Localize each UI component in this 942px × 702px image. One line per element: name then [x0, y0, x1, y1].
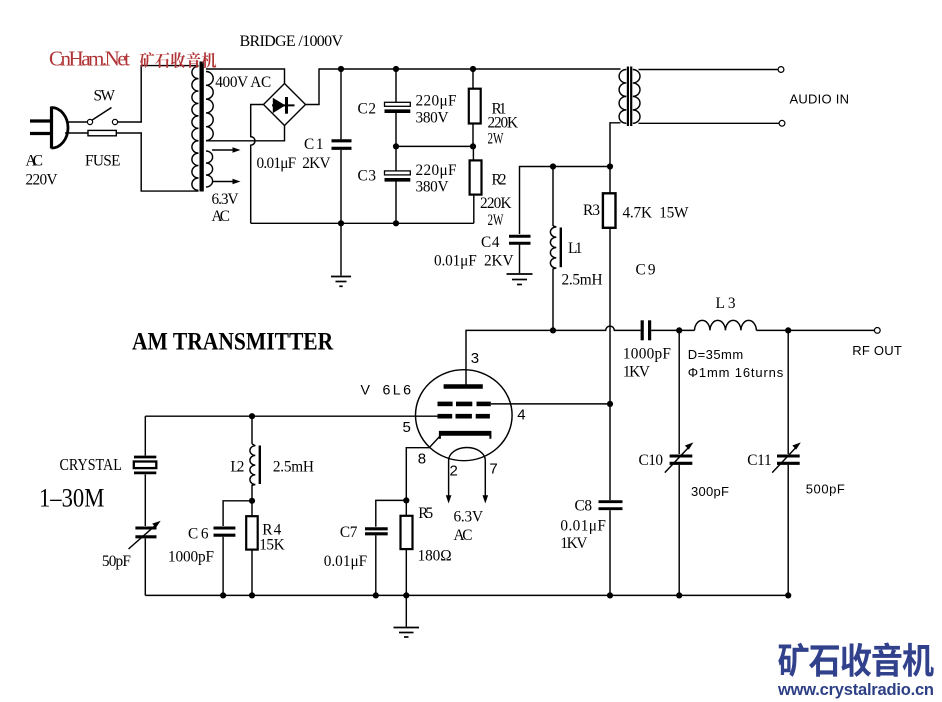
node junction at 553,330.4 — [550, 327, 556, 333]
wire crystal to 50pF — [144, 474, 146, 526]
variable capacitor 50pF — [129, 521, 161, 549]
ground — [394, 628, 420, 638]
wire C10 column top — [678, 330, 680, 454]
capacitor C3 (electrolytic) — [385, 171, 411, 180]
wire plug to fuse — [65, 132, 88, 134]
wire pin4 node down to C8 — [609, 404, 611, 501]
svg-text:4: 4 — [517, 407, 525, 424]
wire primary bottom rail — [141, 132, 198, 191]
audio transformer T2 secondary winding — [633, 70, 640, 124]
node junction at 610,403.9 — [607, 401, 613, 407]
svg-text:CnHam.Net: CnHam.Net — [49, 47, 130, 71]
wire crystal column — [144, 416, 146, 455]
wire 50pF to ground rail — [144, 539, 146, 596]
svg-text:AC: AC — [212, 208, 231, 225]
node wire C4/L1/R3 — [520, 167, 611, 235]
wire node to C6 — [223, 501, 252, 526]
svg-text:1KV: 1KV — [560, 535, 587, 552]
svg-text:C10: C10 — [639, 452, 664, 469]
switch SW — [87, 108, 117, 125]
audio in terminal top — [778, 67, 784, 73]
bridge rectifier diamond — [264, 84, 306, 126]
wire C8 bottom — [609, 510, 611, 595]
svg-text:2W: 2W — [488, 211, 504, 228]
node junction at 788.2,595.4 — [785, 592, 791, 598]
svg-text:BRIDGE /1000V: BRIDGE /1000V — [240, 33, 344, 50]
wire switch to transformer primary top — [118, 121, 142, 123]
logo kuangshi shouyinji blue — [778, 643, 808, 677]
wire pin 5 (grid to crystal rail) — [145, 415, 437, 417]
node junction at 396,223.3 — [393, 220, 399, 226]
svg-text:7: 7 — [489, 461, 497, 478]
wire to ground symbol — [340, 223, 342, 275]
wire audio transformer to R3 column — [610, 123, 621, 194]
resistor R5 — [401, 516, 413, 549]
wire 400V bottom to bridge — [206, 125, 285, 141]
wire R3 bottom down through hop to pin4 node — [609, 228, 611, 404]
node junction at 473,69 — [470, 66, 476, 72]
svg-text:C8: C8 — [575, 497, 593, 514]
node junction at 252,500.8 — [249, 498, 255, 504]
wire C11 column top — [787, 330, 789, 454]
svg-text:1000pF: 1000pF — [623, 346, 671, 363]
inductor L2 — [250, 444, 260, 485]
wire C7 bottom — [375, 535, 377, 595]
transformer T1 core — [200, 62, 204, 192]
svg-text:380V: 380V — [416, 179, 449, 196]
svg-text:2.5mH: 2.5mH — [273, 459, 314, 476]
wire L2 bottom — [251, 485, 253, 501]
capacitor C6 — [214, 528, 236, 535]
label kuangshi shouyinji red — [140, 52, 154, 68]
node junction at 223.1,595.4 — [220, 592, 226, 598]
wire bridge left corner down to ground rail (hop over 400V wire) — [251, 105, 264, 224]
fuse F — [88, 130, 116, 135]
wire pin 4 (grid1 row to R3 column) — [491, 403, 610, 405]
audio transformer T2 primary winding — [619, 70, 626, 124]
svg-text:C11: C11 — [747, 452, 772, 469]
node junction at 375.8,595.4 — [373, 592, 379, 598]
resistor R1 — [469, 89, 481, 124]
node junction at 341,223.3 — [338, 220, 344, 226]
svg-text:6L6: 6L6 — [383, 383, 412, 399]
wire C10 bottom — [678, 465, 680, 596]
svg-text:FUSE: FUSE — [85, 152, 121, 169]
wire C11 bottom — [787, 465, 789, 596]
wire L3 to RF OUT — [756, 329, 874, 331]
tube cathode — [439, 431, 492, 436]
wire L2 top — [251, 416, 253, 444]
wire primary top rail — [141, 66, 198, 123]
svg-text:C9: C9 — [636, 261, 656, 278]
capacitor C1 — [332, 141, 352, 149]
svg-text:5: 5 — [403, 419, 411, 436]
svg-text:0.01μF: 0.01μF — [324, 553, 368, 570]
svg-text:6.3V: 6.3V — [454, 509, 484, 526]
svg-text:0.01μF 2KV: 0.01μF 2KV — [257, 155, 331, 172]
tube base — [449, 448, 486, 461]
node junction at 679.2,595.4 — [676, 592, 682, 598]
svg-text:RF OUT: RF OUT — [852, 343, 902, 358]
svg-text:4.7K 15W: 4.7K 15W — [623, 205, 690, 222]
wire C1 bottom — [340, 150, 342, 223]
svg-text:AUDIO IN: AUDIO IN — [790, 92, 850, 107]
inductor L1 — [550, 226, 560, 269]
variable capacitor C10 — [665, 442, 694, 472]
svg-text:L2: L2 — [230, 459, 244, 476]
node junction at 679.2,330.4 — [676, 327, 682, 333]
svg-text:R5: R5 — [418, 505, 433, 522]
svg-text:Φ1mm 16turns: Φ1mm 16turns — [688, 365, 784, 380]
logo crystalradio — [777, 643, 934, 699]
wire T2 secondary bottom to AUDIO IN — [639, 122, 779, 124]
wire R4 top — [251, 501, 253, 516]
node junction at 473,146.4 — [470, 143, 476, 149]
node junction at 252,416.2 — [249, 413, 255, 419]
svg-text:50pF: 50pF — [102, 553, 131, 570]
wire R2 bottom — [473, 195, 475, 224]
wire fuse to transformer primary bottom — [116, 132, 142, 134]
mid rail C2/C3 to R1/R2 — [396, 145, 473, 147]
wire bridge right corner to top rail — [306, 68, 320, 104]
tube grid row 1 — [438, 402, 491, 407]
wire C4 bottom — [519, 245, 521, 274]
svg-text:C1: C1 — [304, 136, 324, 153]
capacitor C4 — [509, 236, 531, 243]
svg-text:C4: C4 — [481, 234, 500, 251]
wire C9 to L3 — [651, 329, 694, 331]
svg-text:500pF: 500pF — [806, 481, 845, 496]
node junction at 553,166.5 — [550, 163, 556, 169]
variable capacitor C11 — [772, 442, 801, 472]
svg-text:C7: C7 — [340, 524, 358, 541]
svg-text:400V AC: 400V AC — [215, 74, 271, 91]
node junction at 341,69 — [338, 66, 344, 72]
bridge diode — [272, 97, 295, 114]
tube V 6L6 envelope — [416, 370, 513, 461]
svg-text:C2: C2 — [358, 100, 377, 117]
svg-text:1000pF: 1000pF — [168, 549, 214, 566]
svg-text:220μF: 220μF — [416, 162, 457, 179]
transformer T1 primary winding — [192, 66, 199, 190]
svg-text:220V: 220V — [26, 172, 58, 189]
wire 400V top to bridge — [206, 69, 285, 83]
wire C6 bottom — [222, 537, 224, 596]
wire C1 top — [340, 69, 342, 139]
tube grid row 2 — [438, 414, 490, 419]
svg-text:AC: AC — [454, 527, 473, 544]
svg-text:AM TRANSMITTER: AM TRANSMITTER — [132, 328, 334, 356]
ground — [507, 274, 533, 285]
svg-text:R2: R2 — [492, 171, 507, 188]
6.3V terminal arrow bottom — [212, 179, 241, 184]
pin 7 heater lead — [483, 461, 489, 504]
wire R1 bottom — [472, 124, 474, 147]
svg-text:2W: 2W — [488, 130, 504, 147]
capacitor C9 1000pF coupling — [642, 320, 649, 340]
tube plate — [444, 384, 483, 388]
svg-text:V: V — [361, 383, 371, 399]
node junction at 396,69 — [393, 66, 399, 72]
svg-text:0.01μF 2KV: 0.01μF 2KV — [434, 253, 514, 270]
wire R2 top — [472, 146, 474, 160]
svg-text:180Ω: 180Ω — [418, 548, 452, 565]
audio in terminal bottom — [779, 120, 785, 126]
svg-text:300pF: 300pF — [691, 484, 729, 499]
crystal Y1 — [134, 457, 157, 473]
svg-text:220μF: 220μF — [416, 93, 457, 110]
wire R5 bottom — [405, 549, 407, 595]
node junction at 406.3,500.4 — [403, 497, 409, 503]
svg-text:380V: 380V — [416, 110, 449, 127]
svg-text:3: 3 — [471, 350, 479, 367]
ground — [331, 277, 351, 287]
audio transformer T2 core — [628, 67, 631, 127]
wire R4 bottom — [251, 550, 253, 596]
svg-text:0.01μF: 0.01μF — [560, 518, 606, 535]
svg-text:1KV: 1KV — [623, 363, 650, 380]
ground rail of PSU — [251, 222, 474, 224]
resistor R3 — [603, 193, 616, 228]
wire C2 bottom to mid rail — [395, 113, 397, 146]
top rail (+HV) — [319, 68, 621, 70]
wire R1 top — [472, 69, 474, 89]
svg-text:AC: AC — [26, 152, 44, 169]
wire R5 top — [405, 500, 407, 515]
node junction at 396,146.4 — [393, 143, 399, 149]
6.3V terminal arrow top — [212, 147, 241, 152]
pin 2 heater lead — [446, 461, 452, 504]
node junction at 788.2,330.4 — [785, 327, 791, 333]
svg-text:D=35mm: D=35mm — [688, 347, 744, 362]
svg-text:8: 8 — [418, 451, 426, 468]
bottom ground rail — [145, 594, 788, 596]
wire pin 8 cathode — [406, 435, 441, 501]
node junction at 406.3,595.4 — [403, 592, 409, 598]
svg-text:1–30M: 1–30M — [39, 484, 104, 513]
wire to main ground — [405, 595, 407, 626]
capacitor C8 — [599, 502, 623, 509]
inductor L3 — [695, 320, 757, 330]
svg-text:SW: SW — [94, 88, 116, 105]
svg-text:15K: 15K — [259, 536, 285, 553]
wire C3 top — [395, 146, 397, 170]
transformer T1 secondary 6.3V winding — [206, 151, 213, 187]
wire L1 top — [552, 167, 554, 227]
capacitor C7 — [365, 529, 388, 534]
wire C3 bottom — [395, 182, 397, 224]
svg-text:C3: C3 — [358, 168, 377, 185]
wire plug to switch — [67, 121, 87, 123]
svg-text:6.3V: 6.3V — [212, 191, 239, 208]
transformer T1 secondary 400V winding — [206, 72, 213, 141]
svg-text:L1: L1 — [568, 240, 583, 257]
wire node to C7 — [376, 500, 407, 526]
svg-text:R3: R3 — [583, 202, 600, 219]
node junction at 252,595.4 — [249, 592, 255, 598]
svg-text:220K: 220K — [480, 195, 512, 212]
svg-text:2.5mH: 2.5mH — [562, 272, 603, 289]
resistor R2 — [470, 160, 482, 194]
wire plate supply (main B+ wire with hop at x=609.4) — [466, 326, 641, 385]
AC plug — [30, 107, 68, 149]
wire L1 bottom — [552, 269, 554, 331]
svg-text:2: 2 — [450, 462, 458, 479]
wire C2 top — [395, 69, 397, 102]
resistor R4 — [246, 516, 258, 549]
wire T2 secondary top to AUDIO IN — [639, 69, 778, 71]
node junction at 610,166.5 — [607, 163, 613, 169]
node junction at 610,595.4 — [607, 592, 613, 598]
RF out terminal — [874, 328, 880, 334]
svg-text:www.crystalradio.cn: www.crystalradio.cn — [777, 681, 934, 699]
capacitor C2 (electrolytic) — [385, 102, 411, 111]
svg-text:CRYSTAL: CRYSTAL — [60, 456, 122, 474]
